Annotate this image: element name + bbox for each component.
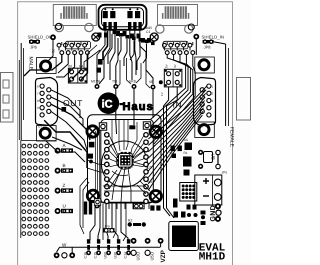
D-sub X2 mounting hole bottom (with box) [195, 122, 215, 138]
K1 divider [212, 175, 214, 205]
jumper A [62, 149, 73, 152]
svg-text:SHIELD_IN: SHIELD_IN [202, 34, 225, 39]
svg-text:U50: U50 [103, 252, 107, 259]
K1 hole 2 [214, 194, 221, 201]
capacitor C2 [172, 154, 177, 159]
iC-Haus logo Haus text [120, 103, 124, 105]
wires chip fanout right [132, 135, 144, 156]
test points U30 [117, 239, 120, 243]
svg-text:JP6: JP6 [30, 45, 38, 50]
test pad U [55, 208, 61, 214]
test pad M1V8 [95, 84, 100, 89]
wires cluster diagonals [84, 50, 100, 72]
svg-text:U3O: U3O [135, 251, 140, 260]
capacitor C7 pads [127, 11, 140, 18]
RJ45 J2 pin pads row 2 [165, 51, 194, 55]
transistor Q2 [128, 22, 142, 29]
D-sub X2 pin holes col A [207, 84, 211, 117]
header JP1 outline [164, 69, 182, 87]
svg-text:1V: 1V [160, 92, 164, 96]
wires X2 to module diagonal bundle [148, 86, 207, 139]
wires module top bundle [112, 120, 116, 150]
RJ45 J1 mounting posts [55, 23, 63, 31]
terminal block K1 outline [195, 175, 222, 205]
svg-text:C2: C2 [169, 150, 173, 154]
D-sub X1 mounting hole bottom (with box) [37, 126, 57, 142]
wires module inner-left bundle [95, 131, 97, 193]
pad P1 [95, 204, 100, 209]
svg-text:O7 O2: O7 O2 [38, 125, 47, 129]
arc trace around chip [116, 153, 133, 170]
RJ45 J2 pin pads row 1 [163, 43, 192, 47]
test points C15 [97, 239, 100, 243]
jumper JP7 [134, 203, 145, 208]
svg-text:JP5: JP5 [222, 171, 228, 175]
svg-text:IN: IN [173, 100, 183, 110]
JP3 pads [79, 70, 83, 74]
capacitor C5 body [98, 59, 103, 65]
prototyping area outline [21, 141, 56, 238]
K1 plus mark [203, 178, 209, 184]
wire VZP drop [160, 244, 162, 248]
svg-text:R9: R9 [68, 64, 72, 68]
edge connector X4 (right, plugged) [237, 78, 251, 121]
module screw top-right [150, 126, 161, 137]
wire stair bus [103, 31, 108, 60]
wires X1 to module [51, 90, 80, 118]
module screw bottom-right [150, 191, 161, 202]
pad GND1 [215, 203, 221, 209]
resistor R3 [98, 33, 109, 38]
wires circle to screw [140, 181, 150, 191]
jumper U [62, 209, 73, 212]
J2 pin outline box [163, 41, 188, 49]
test pad B [55, 168, 61, 174]
module screw bottom-left [87, 190, 98, 201]
RJ45 J1 pin pads row 1 [57, 43, 86, 47]
wires J1 pins to X1 [24, 55, 62, 77]
svg-text:FEMALE: FEMALE [229, 127, 235, 148]
screw hole S1 [92, 33, 100, 41]
JP2 pads [70, 70, 74, 74]
wires chip fanout left [109, 135, 119, 156]
test pad Z [55, 188, 61, 194]
RJ45 jack J2 body [158, 5, 198, 26]
svg-text:LM35: LM35 [144, 26, 152, 30]
module bottom stubs [109, 204, 149, 210]
guard ring trace loop [99, 5, 147, 30]
module pin 1 square pad right [143, 122, 150, 129]
svg-text:M1V8: M1V8 [91, 80, 100, 84]
jumper Z [62, 189, 73, 192]
transistor Q3 [183, 157, 192, 167]
jumper JP8 pads [203, 40, 214, 43]
test pad USO [145, 238, 151, 244]
capacitor C11 [62, 107, 67, 112]
wire shield-out drop [48, 40, 53, 61]
header JP1 corner marks [165, 70, 181, 86]
K1 hole 1 [214, 179, 221, 186]
svg-text:B: B [63, 163, 66, 168]
J1 pin outline box [66, 41, 91, 49]
capacitor C6 pads [103, 11, 116, 18]
transistor Q1 [103, 22, 117, 29]
via near J2 [188, 24, 194, 30]
RJ45 jack J1 body [53, 5, 96, 26]
module U1 outer outline [88, 115, 162, 203]
wires left-bottom curve [80, 178, 87, 234]
resistor R4 [116, 31, 127, 36]
test pad VB [151, 85, 156, 90]
svg-text:MH1D: MH1D [199, 252, 226, 264]
wires J2 pin stubs [164, 42, 192, 51]
IC U6 [185, 143, 193, 151]
module socket pads left column [105, 133, 109, 204]
wires J2 pins vertical bus [150, 55, 186, 121]
pad left of JP1 [159, 80, 163, 84]
wires top cluster drop [97, 29, 105, 84]
test points C14 [127, 239, 130, 243]
resistor R8 [187, 205, 197, 210]
svg-text:5V: 5V [165, 64, 169, 68]
resistor R7 [171, 146, 182, 152]
test points C16 [87, 239, 90, 243]
RJ45 J1 shield teeth [60, 6, 87, 18]
wire right edge bus [225, 44, 227, 126]
svg-text:I5 I9: I5 I9 [197, 125, 203, 129]
module magnet circle [102, 141, 148, 187]
pad GND2 [215, 216, 221, 222]
test pad VZP [158, 238, 164, 244]
svg-text:UB: UB [211, 154, 216, 160]
svg-text:C14: C14 [123, 252, 127, 259]
svg-text:Z: Z [63, 183, 66, 188]
wires module bottom bundle [102, 204, 104, 241]
chip U1 outline [119, 154, 132, 167]
pad SHIELD_OUT [50, 34, 56, 40]
pads left of module [89, 135, 93, 139]
resistor ladder R10-R15 [113, 31, 155, 46]
svg-text:U30: U30 [113, 252, 117, 259]
svg-text:MALE: MALE [28, 57, 34, 71]
test pad A [55, 148, 61, 154]
svg-text:TM: TM [112, 80, 117, 84]
K1 minus mark [203, 195, 209, 197]
pad row W [54, 252, 60, 258]
svg-text:R2: R2 [128, 219, 132, 223]
small rect near module top [129, 125, 135, 129]
D-sub X1 shell outline [36, 78, 58, 126]
wires J1 pin stubs [59, 42, 87, 51]
D-sub X2 mounting hole top (with box) [195, 57, 215, 73]
module U1 inner outline [101, 120, 154, 204]
wires header to module long pair [164, 87, 171, 216]
test pad TM [113, 84, 118, 89]
pad SHIELD_IN [193, 34, 199, 40]
resistor R16 [150, 205, 160, 210]
iC-Haus logo disc [98, 92, 120, 114]
svg-text:Haus: Haus [123, 101, 154, 113]
wire left edge bus [20, 43, 22, 140]
wires module bottom interior [103, 185, 146, 187]
wires X1 bottom to module [46, 141, 85, 162]
label UB boxed [204, 152, 213, 163]
svg-text:C1: C1 [146, 30, 150, 34]
edge connector X3 (left, plugged) [1, 73, 14, 123]
via GND3 [216, 210, 221, 215]
wire left edge third [18, 60, 20, 140]
D-sub X1 pin holes col A [40, 84, 44, 117]
svg-text:U6: U6 [184, 138, 188, 142]
D-sub X2 shell outline [194, 78, 216, 126]
via near J1 [56, 24, 62, 30]
guard cap dots [104, 8, 138, 10]
wire bottom horizontal [60, 246, 161, 248]
jumper JP6 pads [29, 40, 40, 43]
capacitor C4 [130, 34, 141, 39]
extra center verticals [117, 60, 121, 88]
svg-text:3V: 3V [173, 64, 177, 68]
D-sub X2 pin holes col B [200, 88, 204, 114]
svg-text:JP8: JP8 [204, 45, 212, 50]
pad VB1 [198, 150, 203, 155]
pads below R8 [187, 213, 191, 217]
chip U1 body [120, 155, 130, 165]
D-sub X1 pin holes col B [47, 88, 51, 114]
header JP1 pads [167, 72, 171, 76]
svg-text:iC: iC [102, 98, 113, 110]
svg-text:C16: C16 [83, 252, 87, 259]
module pin 1 square pad left [99, 123, 106, 130]
module socket pads right column [144, 133, 148, 204]
jumper JP2/JP3 outline [68, 68, 87, 83]
wire from W row [71, 247, 73, 252]
pad VB2 [198, 164, 203, 169]
wires chip fanout bottom [112, 167, 122, 200]
JP2 corner marks [69, 69, 87, 83]
svg-text:VZP: VZP [160, 249, 167, 262]
screw hole S2 [150, 33, 158, 41]
jumper JP9 [104, 229, 115, 232]
bits left of GND [201, 211, 206, 215]
IC U2 body [172, 226, 196, 248]
capacitor C9 [173, 199, 178, 208]
resistor R5 [141, 38, 151, 43]
wires module right inner bundle [133, 151, 144, 159]
D-sub X1 mounting hole top (with box) [37, 58, 57, 74]
IC U2 outline box [169, 222, 199, 251]
RJ45 J2 mounting posts [156, 25, 164, 33]
svg-text:C15: C15 [93, 252, 97, 259]
chip U1 pins [117, 152, 134, 169]
wires module left fan [87, 168, 105, 172]
wires module bottom drop [90, 202, 95, 240]
diode D1 [184, 170, 190, 176]
test pad VRD [132, 84, 137, 89]
wires diag into chip [106, 170, 117, 185]
wires logo pads to module [115, 89, 118, 134]
IC U2 pins top [174, 212, 186, 218]
module screw top-left [87, 126, 98, 137]
pad box P1 [94, 199, 100, 205]
test points U50 [107, 239, 110, 243]
prototyping hole grid [22, 144, 49, 235]
svg-text:U: U [63, 204, 66, 209]
jumper JP5 pads [217, 153, 219, 167]
capacitor C8 bars [84, 202, 92, 215]
svg-text:U5O: U5O [149, 251, 154, 260]
board outline [18, 2, 233, 265]
svg-text:JP9: JP9 [104, 225, 110, 229]
jumper B [62, 169, 73, 172]
RJ45 J1 pin pads row 2 [60, 51, 89, 55]
svg-text:R1: R1 [184, 151, 188, 155]
test pad VSO [131, 238, 137, 244]
wire shield-in to edge [214, 42, 226, 44]
resistor network RN1 pads [180, 183, 197, 202]
capacitor C3 body [96, 68, 101, 73]
RJ45 J2 shield teeth [162, 6, 189, 18]
